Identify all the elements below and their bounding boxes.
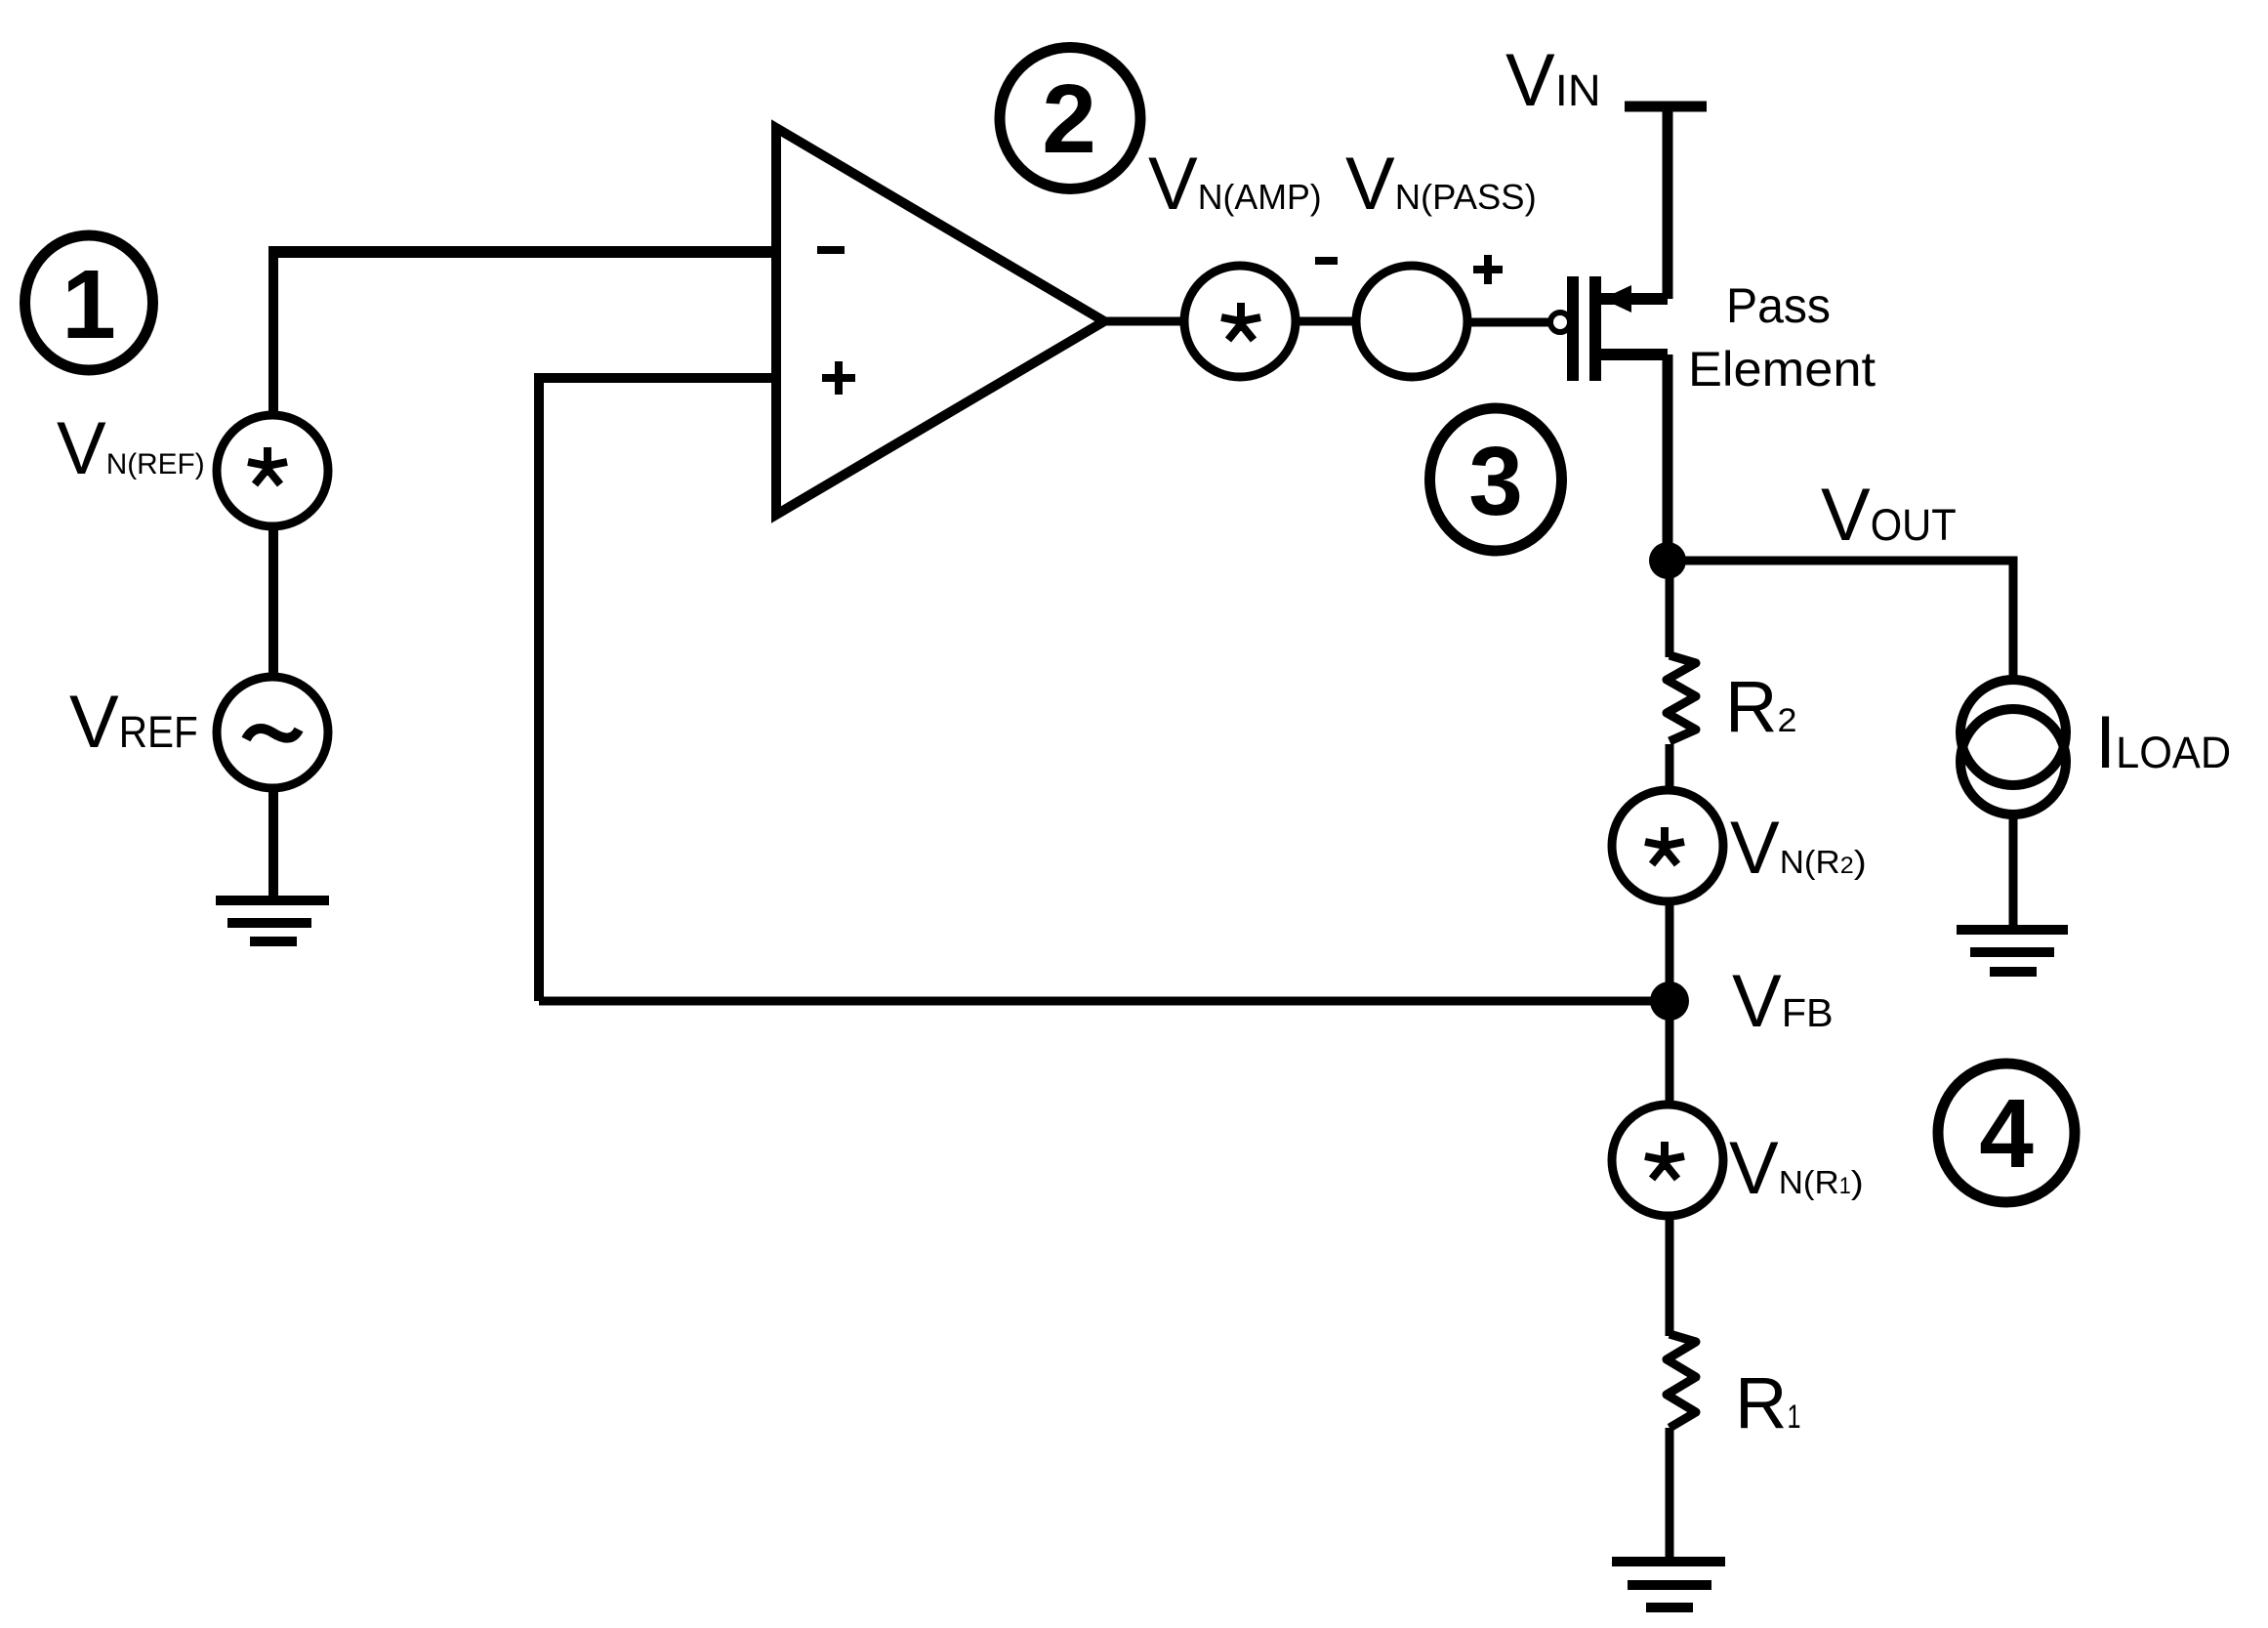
svg-text:1: 1 <box>62 250 116 359</box>
wire: pass transistor drain to V_OUT node <box>1663 355 1673 566</box>
drain lead <box>1601 349 1668 360</box>
wire: V_N(R2) to V_FB node <box>1666 899 1674 1001</box>
wire: V_N(AMP) to V_N(PASS) <box>1296 317 1356 326</box>
svg-text:Pass: Pass <box>1726 278 1831 333</box>
noise source V_N(PASS) <box>1356 266 1467 377</box>
wire: feedback V_FB node to op-amp (horizontal run) <box>539 997 1670 1006</box>
V_IN supply bar <box>1625 102 1707 112</box>
resistor R1 <box>1667 1334 1696 1428</box>
circled number 1 <box>25 235 153 370</box>
circled number 3 <box>1430 408 1562 551</box>
wire: R1 to ground <box>1666 1428 1674 1560</box>
ground (below I_LOAD) <box>1957 930 2068 972</box>
source arrow <box>1602 285 1631 313</box>
op-amp inverting input label - <box>817 246 845 254</box>
polarity minus of V_N(PASS) <box>1315 257 1338 265</box>
op-amp U1 (error amplifier) <box>776 128 1104 515</box>
noise source V_N(R1) <box>1612 1105 1723 1216</box>
wire: V_N(PASS) to pass transistor gate <box>1468 318 1549 327</box>
gate bubble <box>1550 313 1570 332</box>
node V_OUT (junction dot) <box>1649 542 1686 579</box>
ground (below V_REF) <box>216 900 329 941</box>
noise source V_N(REF) <box>217 415 328 526</box>
svg-text:3: 3 <box>1468 427 1523 536</box>
resistor R2 <box>1667 655 1696 741</box>
noise source V_N(AMP) <box>1184 266 1296 377</box>
wire: V_REF to ground <box>268 786 278 898</box>
polarity plus of V_N(PASS) <box>1473 255 1503 284</box>
channel bar <box>1589 276 1601 381</box>
wire: op-amp non-inverting input (feedback) <box>539 378 776 1001</box>
wire: V_N(R1) to R1 <box>1666 1214 1674 1336</box>
current source I_LOAD <box>1960 680 2066 814</box>
wire: op-amp output to V_N(AMP) <box>1104 317 1186 326</box>
wire: V_IN to pass transistor source <box>1663 111 1673 299</box>
noise source V_N(R2) <box>1612 790 1723 901</box>
svg-text:2: 2 <box>1042 64 1096 174</box>
wire: V_OUT node to I_LOAD <box>1668 561 2013 680</box>
wire: V_N(REF) top to op-amp inverting input <box>268 246 278 413</box>
wire: I_LOAD to ground <box>2009 817 2018 928</box>
voltage source V_REF <box>217 677 328 788</box>
circled number 2 <box>1000 48 1140 189</box>
pass transistor Q1 (PMOS pass element) <box>1550 276 1668 381</box>
wire: V_FB node to V_N(R1) <box>1666 1001 1674 1106</box>
wire: V_OUT node down to R2 <box>1666 561 1674 657</box>
op-amp non-inverting input label + <box>822 361 855 395</box>
gate bar <box>1567 276 1579 381</box>
source lead <box>1601 293 1668 305</box>
node V_FB (junction dot) <box>1650 981 1689 1021</box>
wire: V_N(REF) to V_REF <box>268 524 278 679</box>
wire: R2 to V_N(R2) <box>1666 744 1674 793</box>
svg-text:Element: Element <box>1688 342 1876 397</box>
ground (below R1) <box>1612 1562 1725 1607</box>
svg-text:4: 4 <box>1979 1079 2034 1189</box>
circled number 4 <box>1938 1064 2075 1202</box>
